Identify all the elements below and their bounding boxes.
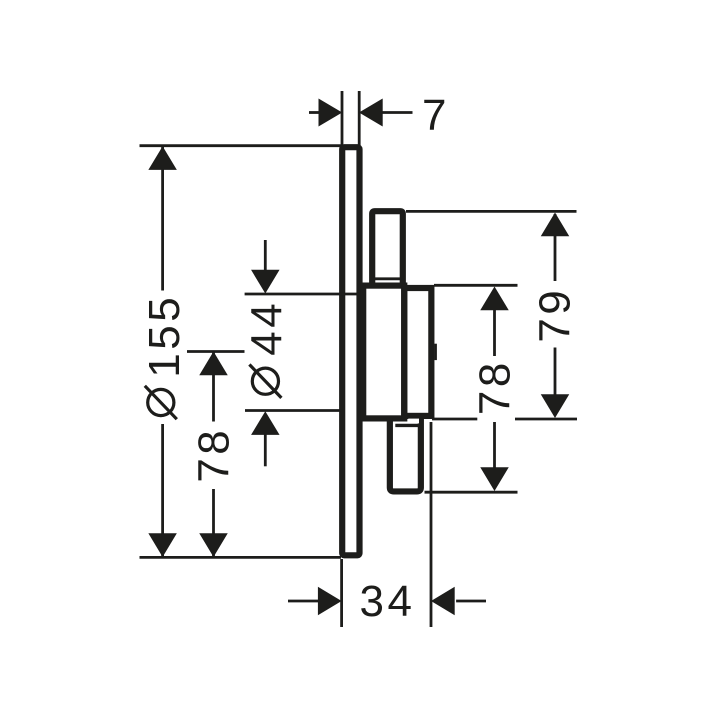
- upper stem (stop valve sleeve): [372, 211, 403, 286]
- dim 34: left extension line: [340, 559, 343, 627]
- dim Ø44: lower leader: [264, 434, 267, 466]
- dim 79: top extension line: [406, 210, 577, 213]
- dim 34: right leader: [456, 600, 486, 603]
- lower stem: [390, 418, 421, 491]
- dim 78 left: up arrowhead: [199, 352, 228, 376]
- dim 7: right leader: [382, 111, 413, 114]
- dim Ø44: down arrowhead (points at top ext): [251, 270, 279, 294]
- dim 78 right: top extension line: [434, 284, 518, 287]
- dim Ø44: top extension line: [245, 293, 360, 296]
- label Ø155: diameter symbol slash: [145, 386, 177, 419]
- dim 78 left: dimension line upper segment: [212, 352, 215, 422]
- dim 34: right extension line: [430, 422, 433, 627]
- dim Ø44: bottom extension line: [245, 409, 342, 412]
- dim 34: left leader: [288, 600, 319, 603]
- dim Ø44: upper leader: [264, 240, 267, 271]
- dim 7: right extension line: [358, 91, 361, 148]
- small detail bump on right edge: [434, 344, 437, 360]
- svg-text:78: 78: [190, 427, 239, 483]
- dim 34: right-pointing arrowhead: [318, 587, 342, 616]
- dim 7: right-pointing arrowhead: [319, 99, 343, 127]
- label Ø155: diameter symbol circle: [148, 389, 174, 415]
- dim 78 left: dimension line lower segment: [212, 489, 215, 556]
- dim 78 left: down arrowhead: [199, 533, 228, 557]
- dim 79: bottom extension line right part: [515, 418, 577, 421]
- dim 78 left: top extension line (sleeve centerline): [187, 350, 245, 353]
- dim Ø155: dimension line lower segment: [161, 424, 164, 556]
- dim Ø155: up arrowhead: [148, 146, 177, 170]
- dim Ø155: bottom extension line: [140, 556, 342, 559]
- svg-text:34: 34: [360, 577, 416, 626]
- svg-text:79: 79: [531, 287, 580, 343]
- right cap of body: [404, 288, 431, 416]
- dim Ø155: dimension line upper segment: [161, 147, 164, 291]
- dim 79: up arrowhead: [541, 213, 570, 237]
- dim 78 right: bottom extension line (stem bottom): [425, 491, 518, 494]
- svg-text:155: 155: [140, 294, 189, 378]
- dim 7: left extension line: [341, 91, 344, 146]
- label Ø44: diameter symbol slash: [249, 365, 281, 398]
- dim 7: left leader: [309, 111, 320, 114]
- dim 7: left-pointing arrowhead: [359, 99, 383, 127]
- dim 78 right: down arrowhead: [480, 467, 509, 491]
- wall plate (side view, thin vertical rectangle): [342, 147, 359, 555]
- dim 34: left-pointing arrowhead: [431, 587, 455, 616]
- dim 78 right: up arrowhead: [480, 287, 509, 311]
- lower stem inner top line: [395, 424, 419, 427]
- dim 79: bottom extension line left part (body bottom): [432, 418, 477, 421]
- dim Ø155: down arrowhead: [148, 533, 177, 557]
- svg-text:44: 44: [243, 300, 292, 356]
- svg-text:78: 78: [471, 359, 520, 415]
- upper stem inner flange line: [375, 277, 400, 280]
- dim 79: dimension line upper segment: [554, 214, 557, 281]
- dim 78 right: dimension line upper segment: [493, 289, 496, 356]
- dim Ø155: top extension line: [140, 144, 342, 147]
- notch detail at lower stem top right (white cutout): [408, 419, 419, 424]
- label Ø44: diameter symbol circle: [252, 368, 278, 394]
- dim 78 right: dimension line lower segment: [493, 422, 496, 487]
- dim 79: dimension line lower segment: [554, 348, 557, 395]
- dim 79: down arrowhead: [541, 394, 570, 418]
- svg-text:7: 7: [422, 91, 450, 140]
- dim Ø44: up arrowhead (points at bottom ext): [251, 411, 279, 435]
- main body (cartridge housing): [363, 286, 404, 419]
